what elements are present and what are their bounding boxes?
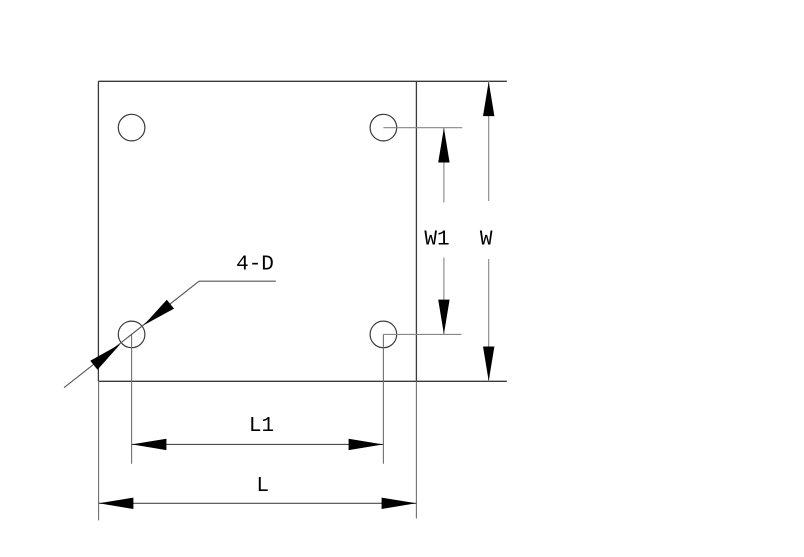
dimension line W1 lower segment bbox=[443, 258, 445, 335]
arrowhead W bottom bbox=[483, 347, 494, 382]
arrowhead L left bbox=[99, 498, 134, 509]
arrowhead L1 right bbox=[349, 439, 384, 450]
plate outline bottom edge (extended right as extension line for W) bbox=[98, 380, 507, 382]
hole top-right bbox=[370, 114, 397, 141]
dimension line W upper segment bbox=[488, 81, 490, 201]
leader diagonal line through bottom-left hole bbox=[64, 281, 199, 388]
dimension line L bbox=[99, 502, 417, 504]
svg-text:W: W bbox=[480, 229, 493, 252]
leader arrowhead lower (points to hole edge from lower left) bbox=[90, 344, 120, 370]
svg-text:L1: L1 bbox=[249, 415, 274, 438]
hole bottom-left bbox=[118, 321, 145, 348]
extension line below bottom-right hole (for L1) bbox=[382, 334, 384, 463]
plate outline left edge bbox=[97, 81, 99, 381]
arrowhead W top bbox=[483, 82, 494, 117]
dimension line W lower segment bbox=[488, 259, 490, 381]
plate outline top edge (extended right as extension line for W) bbox=[98, 80, 507, 82]
arrowhead L right bbox=[382, 498, 417, 509]
extension line below bottom-left hole (for L1) bbox=[131, 334, 133, 463]
extension line from bottom-right hole center (for W1) bbox=[383, 333, 461, 335]
svg-text:W1: W1 bbox=[424, 229, 449, 252]
leader arrowhead upper (points to hole edge from upper right) bbox=[144, 300, 174, 326]
arrowhead W1 top bbox=[438, 128, 449, 163]
svg-text:4-D: 4-D bbox=[236, 253, 274, 276]
arrowhead L1 left bbox=[132, 439, 167, 450]
extension line from top-right hole center (for W1) bbox=[383, 127, 462, 129]
hole bottom-right bbox=[370, 321, 397, 348]
extension line below bottom-left plate corner (for L) bbox=[98, 381, 100, 520]
dimension line W1 upper segment bbox=[443, 128, 445, 203]
dimension line L1 bbox=[132, 443, 384, 445]
extension line below bottom-right plate corner (for L) bbox=[415, 381, 417, 518]
hole top-left bbox=[118, 114, 145, 141]
leader horizontal underline of 4-D bbox=[199, 280, 276, 282]
plate outline right edge bbox=[415, 81, 417, 381]
arrowhead W1 bottom bbox=[438, 300, 449, 335]
svg-text:L: L bbox=[256, 475, 269, 498]
